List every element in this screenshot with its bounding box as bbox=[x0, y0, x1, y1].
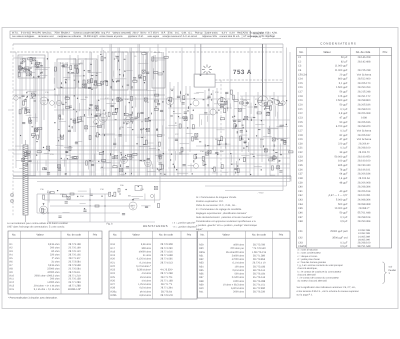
svg-text:C26: C26 bbox=[298, 125, 303, 128]
svg-text:20.000 ohm/V: 20.000 ohm/V bbox=[84, 35, 99, 38]
svg-text:28.771.638: 28.771.638 bbox=[160, 254, 173, 257]
svg-text:C O N D E N S A T E U R S: C O N D E N S A T E U R S bbox=[320, 42, 355, 46]
svg-text:R36: R36 bbox=[199, 273, 204, 276]
svg-text:Imp. F-2: Imp. F-2 bbox=[101, 32, 110, 35]
svg-text:*P.173.325*: *P.173.325* bbox=[160, 269, 173, 272]
svg-text:28.776.5⁄4: 28.776.5⁄4 bbox=[161, 290, 173, 293]
svg-text:R16: R16 bbox=[111, 243, 116, 246]
svg-text:C20: C20 bbox=[298, 104, 303, 107]
svg-text:28.206.4*: 28.206.4* bbox=[359, 142, 370, 145]
svg-text:C62: C62 bbox=[298, 237, 303, 240]
svg-text:R17: R17 bbox=[111, 247, 116, 250]
svg-text:20 μμF: 20 μμF bbox=[339, 73, 347, 76]
svg-text:C36: C36 bbox=[40, 188, 45, 191]
svg-text:Reglages experimentes: „iden: Reglages experimentes: „identification l… bbox=[196, 212, 247, 215]
svg-text:Ordre de succession: O.C.,: Ordre de succession: O.C., O.M., G.L. bbox=[196, 204, 237, 207]
svg-text:C19: C19 bbox=[185, 93, 190, 96]
svg-text:Fig. b: Fig. b bbox=[107, 223, 114, 226]
svg-text:28.098.2*: 28.098.2* bbox=[359, 207, 370, 210]
svg-text:„0,47 — 1 — 0,5”: „0,47 — 1 — 0,5” bbox=[328, 194, 348, 197]
svg-text:R22: R22 bbox=[111, 265, 116, 268]
svg-text:d'accord electrique,: d'accord electrique, bbox=[298, 267, 318, 270]
svg-text:6,1 M.ohm: 6,1 M.ohm bbox=[232, 262, 244, 265]
svg-text:d = petite prise d'acier: d = petite prise d'acier bbox=[298, 258, 321, 261]
svg-text:64 μμF: 64 μμF bbox=[339, 173, 347, 176]
svg-text:C34: C34 bbox=[200, 150, 205, 153]
svg-text:R30: R30 bbox=[220, 150, 225, 153]
svg-text:R30: R30 bbox=[199, 247, 204, 250]
svg-text:R34: R34 bbox=[80, 195, 85, 198]
svg-text:08-1950: 08-1950 bbox=[91, 32, 100, 35]
svg-text:Le raccordement pour contre-ce: Le raccordement pour contre-cellule E19 … bbox=[7, 222, 69, 225]
svg-text:100 μμF: 100 μμF bbox=[338, 160, 348, 163]
svg-text:C34: C34 bbox=[298, 160, 303, 163]
svg-text:28.206.068: 28.206.068 bbox=[358, 112, 371, 115]
svg-text:0,1 μF: 0,1 μF bbox=[340, 129, 348, 132]
svg-text:753A: 753A bbox=[54, 32, 60, 35]
svg-text:B5: B5 bbox=[128, 195, 131, 198]
svg-text:R18: R18 bbox=[100, 123, 105, 126]
svg-text:C35: C35 bbox=[298, 164, 303, 167]
svg-text:28.298.100: 28.298.100 bbox=[358, 147, 371, 150]
svg-text:56.772.830: 56.772.830 bbox=[253, 287, 266, 290]
svg-text:50 μF: 50 μF bbox=[341, 56, 348, 59]
svg-text:R27: R27 bbox=[111, 283, 116, 286]
svg-text:0,6 M.ohm: 0,6 M.ohm bbox=[139, 287, 151, 290]
svg-text:Valeurs mesurees: Valeurs mesurees bbox=[112, 32, 131, 35]
svg-text:28.146.208: 28.146.208 bbox=[358, 56, 371, 59]
svg-text:C42: C42 bbox=[298, 194, 303, 197]
svg-text:C27: C27 bbox=[175, 133, 180, 136]
svg-text:R28b: R28b bbox=[111, 294, 117, 297]
svg-text:du moteur d'accord alternat: du moteur d'accord alternatif. bbox=[298, 280, 328, 283]
svg-text:No.: No. bbox=[113, 234, 117, 237]
svg-text:Prix: Prix bbox=[93, 234, 98, 237]
svg-text:0,6 M.ohm: 0,6 M.ohm bbox=[232, 269, 244, 272]
svg-text:R33: R33 bbox=[199, 262, 204, 265]
svg-text:laque”: laque” bbox=[196, 228, 203, 231]
svg-text:Voir Schema: Voir Schema bbox=[357, 129, 372, 132]
svg-text:28.206.70: 28.206.70 bbox=[358, 151, 370, 154]
svg-text:C17: C17 bbox=[105, 97, 110, 100]
svg-text:C22: C22 bbox=[298, 112, 303, 115]
svg-text:800 μμF: 800 μμF bbox=[338, 78, 348, 81]
svg-text:C30: C30 bbox=[275, 138, 280, 141]
svg-text:de tension sont: de tension sont bbox=[38, 35, 54, 38]
svg-text:R28: R28 bbox=[111, 287, 116, 290]
svg-text:125 μμF: 125 μμF bbox=[338, 95, 348, 98]
svg-text:C33: C33 bbox=[298, 155, 303, 158]
svg-text:2000 ohm: 2000 ohm bbox=[233, 291, 244, 294]
svg-text:R34: R34 bbox=[199, 265, 204, 268]
svg-text:C28: C28 bbox=[298, 134, 303, 137]
svg-text:2400 ohm: 2400 ohm bbox=[233, 280, 244, 283]
svg-text:28.205.170: 28.205.170 bbox=[358, 82, 371, 85]
svg-text:mesurees au voltmetre: mesurees au voltmetre bbox=[58, 35, 82, 38]
svg-text:Prix: Prix bbox=[383, 51, 388, 54]
svg-text:48 μμF: 48 μμF bbox=[339, 181, 347, 184]
svg-text:C20: C20 bbox=[215, 91, 220, 94]
svg-text:C26: C26 bbox=[120, 126, 125, 129]
svg-text:0,5 μF: 0,5 μF bbox=[340, 220, 348, 223]
svg-text:R24: R24 bbox=[111, 272, 116, 275]
svg-text:26.771.168: 26.771.168 bbox=[160, 279, 173, 282]
svg-text:voir: voir bbox=[389, 266, 393, 269]
svg-text:C45: C45 bbox=[298, 207, 303, 210]
svg-text:28.776.308: 28.776.308 bbox=[160, 243, 173, 246]
svg-text:28.290.364: 28.290.364 bbox=[358, 220, 371, 223]
svg-text:0,47 M.ohm ⁄*: 0,47 M.ohm ⁄* bbox=[136, 265, 151, 268]
svg-text:Voir Schema: Voir Schema bbox=[357, 138, 372, 141]
svg-text:et les tensions F.M.A.S., voir: et les tensions F.M.A.S., voir le schema… bbox=[297, 290, 360, 293]
svg-text:50 Hz: 50 Hz bbox=[140, 32, 147, 35]
svg-text:51 ohm: 51 ohm bbox=[143, 254, 151, 257]
svg-text:R15: R15 bbox=[240, 98, 245, 101]
svg-text:C15: C15 bbox=[45, 91, 50, 94]
svg-text:C25: C25 bbox=[298, 121, 303, 124]
svg-text:56 μμF: 56 μμF bbox=[339, 91, 347, 94]
svg-text:No.: No. bbox=[200, 234, 204, 237]
svg-text:C3: C3 bbox=[298, 65, 302, 68]
svg-text:220 V: 220 V bbox=[133, 32, 139, 35]
svg-text:C31: C31 bbox=[298, 147, 303, 150]
svg-text:50.000 μμF: 50.000 μμF bbox=[335, 155, 348, 158]
svg-text:0,1 μF: 0,1 μF bbox=[340, 147, 348, 150]
svg-text:No.: No. bbox=[299, 51, 303, 54]
svg-text:10.000 μμF: 10.000 μμF bbox=[335, 207, 348, 210]
svg-text:tolerance 10%: tolerance 10% bbox=[202, 35, 217, 38]
svg-text:28.205.186: 28.205.186 bbox=[358, 121, 371, 124]
svg-text:C4: C4 bbox=[298, 69, 302, 72]
svg-text:0,3 A: 0,3 A bbox=[230, 32, 236, 35]
svg-text:48.836.149*: 48.836.149* bbox=[68, 288, 81, 291]
svg-text:Voir Schema: Voir Schema bbox=[357, 73, 372, 76]
svg-text:Valeur: Valeur bbox=[132, 234, 139, 237]
svg-text:220 μμF: 220 μμF bbox=[338, 142, 348, 145]
svg-text:k = le contact de courbur: k = le contact de courbure du commutateu… bbox=[298, 270, 342, 273]
svg-text:82 μμF: 82 μμF bbox=[339, 134, 347, 137]
svg-text:R31: R31 bbox=[199, 254, 204, 257]
svg-text:Suite declanchements: „selec: Suite declanchements: „selection et loca… bbox=[196, 216, 253, 219]
svg-text:28.774.260: 28.774.260 bbox=[160, 247, 173, 250]
svg-text:C17: C17 bbox=[298, 91, 303, 94]
svg-text:Valeur: Valeur bbox=[323, 51, 331, 54]
svg-text:28.776.230: 28.776.230 bbox=[253, 291, 266, 294]
svg-text:40 μμF: 40 μμF bbox=[339, 190, 347, 193]
svg-text:R2: R2 bbox=[80, 62, 83, 65]
svg-text:R10: R10 bbox=[125, 98, 130, 101]
svg-text:28.215.248: 28.215.248 bbox=[358, 91, 371, 94]
svg-text:C23: C23 bbox=[298, 116, 303, 119]
svg-text:405 μμF: 405 μμF bbox=[338, 164, 348, 167]
svg-text:No. de code: No. de code bbox=[159, 234, 174, 237]
svg-text:328 ohm: 328 ohm bbox=[142, 247, 152, 250]
svg-text:1,25 M.ohm: 1,25 M.ohm bbox=[138, 283, 151, 286]
svg-text:26.776.4 10: 26.776.4 10 bbox=[253, 262, 267, 265]
svg-text:6,8 M.ohm: 6,8 M.ohm bbox=[139, 294, 151, 297]
svg-text:« position „gauche” et la: « position „gauche” et la « position „co… bbox=[196, 224, 258, 227]
svg-text:R40: R40 bbox=[199, 287, 204, 290]
svg-text:O.C.: O.C. bbox=[175, 32, 180, 35]
svg-text:C22: C22 bbox=[60, 118, 65, 121]
svg-text:C38: C38 bbox=[100, 188, 105, 191]
svg-text:50 μμF: 50 μμF bbox=[339, 104, 347, 107]
svg-text:28.206.068: 28.206.068 bbox=[358, 181, 371, 184]
svg-text:sur la page F 2.: sur la page F 2. bbox=[297, 294, 314, 297]
svg-text:s⁄h M.ohm: s⁄h M.ohm bbox=[140, 290, 151, 293]
svg-text:HT redressee: HT redressee bbox=[243, 35, 258, 38]
svg-text:C29: C29 bbox=[240, 138, 245, 141]
svg-text:R20: R20 bbox=[111, 258, 116, 261]
svg-text:C14: C14 bbox=[298, 78, 303, 81]
svg-text:40000 ohm: 40000 ohm bbox=[139, 250, 151, 253]
svg-text:b = sans condensateur: b = sans condensateur bbox=[298, 252, 322, 255]
svg-text:C16: C16 bbox=[298, 86, 303, 89]
svg-text:C48: C48 bbox=[298, 220, 303, 223]
svg-text:28.771.**4: 28.771.**4 bbox=[161, 283, 173, 286]
svg-text:28.190.160: 28.190.160 bbox=[358, 160, 371, 163]
svg-text:C36: C36 bbox=[298, 168, 303, 171]
svg-text:2×500 ohm: 2×500 ohm bbox=[232, 276, 244, 279]
svg-text:C39: C39 bbox=[140, 188, 145, 191]
svg-text:24.098.364: 24.098.364 bbox=[358, 199, 371, 202]
svg-text:28.196.191: 28.196.191 bbox=[358, 168, 371, 171]
svg-text:O.M.: O.M. bbox=[182, 32, 187, 35]
svg-text:C43: C43 bbox=[298, 199, 303, 202]
svg-text:C2: C2 bbox=[298, 60, 302, 63]
svg-text:R25: R25 bbox=[111, 276, 116, 279]
svg-text:C18: C18 bbox=[145, 101, 150, 104]
svg-text:R26: R26 bbox=[111, 279, 116, 282]
svg-text:c = disque a l'ecran: c = disque a l'ecran bbox=[298, 255, 319, 258]
svg-text:28.771.*04: 28.771.*04 bbox=[161, 276, 173, 279]
svg-text:28.298.394: 28.298.394 bbox=[358, 186, 371, 189]
svg-text:28.291.172: 28.291.172 bbox=[358, 95, 371, 98]
svg-text:l = le contact de contact: l = le contact de contact du commutateur bbox=[298, 277, 340, 280]
svg-text:220 ohm par: 220 ohm par bbox=[230, 247, 244, 250]
svg-text:28.776.288: 28.776.288 bbox=[253, 280, 266, 283]
svg-text:E.M.: E.M. bbox=[168, 32, 173, 35]
svg-text:28.774.513: 28.774.513 bbox=[160, 261, 173, 264]
svg-text:* Personnalisation à chaufon a: * Personnalisation à chaufon avec detona… bbox=[8, 297, 58, 300]
svg-text:C29: C29 bbox=[298, 138, 303, 141]
svg-text:28.773.186: 28.773.186 bbox=[253, 265, 266, 268]
svg-text:28.298.470: 28.298.470 bbox=[358, 125, 371, 128]
svg-text:S1: S1 bbox=[134, 55, 137, 58]
svg-text:28.290.299: 28.290.299 bbox=[358, 86, 371, 89]
svg-text:500 ohm: 500 ohm bbox=[235, 273, 245, 276]
svg-text:C21: C21 bbox=[298, 108, 303, 111]
svg-text:78.771.394: 78.771.394 bbox=[160, 287, 173, 290]
svg-text:courant total 34 mA: courant total 34 mA bbox=[219, 35, 239, 38]
svg-text:28.771.380: 28.771.380 bbox=[253, 254, 266, 257]
svg-text:R36: R36 bbox=[120, 184, 125, 187]
svg-text:28.298.860: 28.298.860 bbox=[358, 99, 371, 102]
svg-text:(1.000 μμF: (1.000 μμF bbox=[335, 65, 348, 68]
svg-text:5,1 μμF: 5,1 μμF bbox=[339, 82, 348, 85]
svg-text:5-CV-218: 5-CV-218 bbox=[21, 32, 31, 35]
svg-text:28.142.498: 28.142.498 bbox=[358, 60, 371, 63]
svg-text:28.298.100: 28.298.100 bbox=[358, 108, 371, 111]
svg-text:4000 ohm: 4000 ohm bbox=[233, 244, 244, 247]
svg-text:9,1 M.ohm + 0,1 M.ohm: 9,1 M.ohm + 0,1 M.ohm bbox=[34, 288, 60, 291]
svg-text:Valeur: Valeur bbox=[36, 234, 43, 237]
svg-text:Feuille 2: Feuille 2 bbox=[61, 32, 70, 35]
svg-text:28.774.565: 28.774.565 bbox=[160, 258, 173, 261]
svg-text:M.T.U.: M.T.U. bbox=[12, 32, 19, 35]
svg-text:6,8 μμF: 6,8 μμF bbox=[339, 112, 348, 115]
svg-text:AZ41: AZ41 bbox=[272, 32, 278, 35]
svg-text:78 μμF: 78 μμF bbox=[339, 168, 347, 171]
svg-text:R37: R37 bbox=[199, 276, 204, 279]
svg-text:C31: C31 bbox=[50, 153, 55, 156]
svg-text:28.512.660: 28.512.660 bbox=[358, 78, 371, 81]
svg-text:f, g, h et i sont les con: f, g, h et i sont les contacts du volet … bbox=[298, 264, 344, 267]
svg-text:C47: C47 bbox=[298, 216, 303, 219]
svg-text:4 M.ohm: 4 M.ohm bbox=[142, 279, 151, 282]
svg-text:47 μμF: 47 μμF bbox=[339, 138, 347, 141]
svg-text:8,28 M.ohm*: 8,28 M.ohm* bbox=[137, 269, 151, 272]
svg-text:H.T. 253 V: H.T. 253 V bbox=[148, 32, 159, 35]
svg-text:9,1 M.ohm: 9,1 M.ohm bbox=[139, 261, 151, 264]
svg-text:Consideration est appreciee: Consideration est appreciee seulement qu… bbox=[196, 220, 256, 223]
svg-text:C16: C16 bbox=[65, 95, 70, 98]
svg-text:Red. AZ41: Red. AZ41 bbox=[237, 32, 249, 35]
svg-text:47000 ohm: 47000 ohm bbox=[232, 258, 244, 261]
svg-text:Cadre antist.: Cadre antist. bbox=[205, 32, 218, 35]
svg-text:R18: R18 bbox=[111, 250, 116, 253]
svg-text:K = Commutateur de reglage: K = Commutateur de reglage de sensibilit… bbox=[196, 208, 242, 211]
svg-text:C64/65: C64/65 bbox=[298, 245, 307, 248]
svg-text:28.773.780: 28.773.780 bbox=[253, 244, 266, 247]
svg-text:0,1 μF: 0,1 μF bbox=[340, 216, 348, 219]
svg-text:3,56 ohm: 3,56 ohm bbox=[141, 243, 151, 246]
svg-text:R21: R21 bbox=[111, 261, 116, 264]
svg-text:EAF41: EAF41 bbox=[257, 32, 265, 35]
svg-text:28.771.616: 28.771.616 bbox=[160, 250, 173, 253]
svg-text:a = sans d'induction: a = sans d'induction bbox=[298, 249, 319, 252]
svg-text:28.205.186: 28.205.186 bbox=[358, 104, 371, 107]
svg-text:C15: C15 bbox=[298, 82, 303, 85]
svg-text:No. de code: No. de code bbox=[67, 234, 82, 237]
svg-text:G.L.: G.L. bbox=[188, 32, 193, 35]
svg-text:C25: C25 bbox=[80, 120, 85, 123]
svg-text:10 ohm = 59,3 ohm: 10 ohm = 59,3 ohm bbox=[223, 283, 244, 286]
svg-text:1.500 μμF: 1.500 μμF bbox=[336, 86, 348, 89]
svg-text:R35: R35 bbox=[199, 269, 204, 272]
svg-text:R9: R9 bbox=[85, 96, 88, 99]
svg-text:C1: C1 bbox=[298, 56, 302, 59]
svg-text:R41: R41 bbox=[199, 291, 204, 294]
svg-text:753 A: 753 A bbox=[233, 69, 252, 76]
svg-text:C46: C46 bbox=[298, 212, 303, 215]
svg-text:Prix: Prix bbox=[187, 234, 192, 237]
svg-text:4.700 μμF: 4.700 μμF bbox=[336, 125, 348, 128]
svg-text:1,4 μμF: 1,4 μμF bbox=[339, 177, 348, 180]
svg-text:55.776.516: 55.776.516 bbox=[253, 276, 266, 279]
svg-text:26.774.151: 26.774.151 bbox=[253, 283, 266, 286]
svg-text:C40: C40 bbox=[298, 186, 303, 189]
svg-text:C19: C19 bbox=[298, 99, 303, 102]
svg-text:28.205.182: 28.205.182 bbox=[358, 134, 371, 137]
svg-text:e = fixe des bornes grand: e = fixe des bornes grandes bbox=[298, 261, 327, 264]
svg-text:100 ohm: 100 ohm bbox=[235, 265, 245, 268]
svg-text:28.190.650: 28.190.650 bbox=[358, 155, 371, 158]
svg-text:R38: R38 bbox=[199, 280, 204, 283]
svg-text:1698: 1698 bbox=[361, 116, 367, 119]
svg-text:C37: C37 bbox=[298, 173, 303, 176]
svg-text:3500 μμF ord: 3500 μμF ord bbox=[332, 237, 348, 240]
svg-text:5.000 μμF: 5.000 μμF bbox=[336, 199, 348, 202]
svg-text:28.771.268: 28.771.268 bbox=[160, 272, 173, 275]
svg-text:4 M.ohm: 4 M.ohm bbox=[142, 272, 151, 275]
svg-text:*75.776.550: *75.776.550 bbox=[252, 247, 266, 250]
svg-text:No.: No. bbox=[12, 234, 16, 237]
svg-text:R32: R32 bbox=[199, 258, 204, 261]
svg-text:28.215.238: 28.215.238 bbox=[358, 69, 371, 72]
svg-text:· m = „position diapason”: · m = „position diapason” bbox=[172, 225, 198, 228]
svg-text:« n = „position gauche”: « n = „position gauche” bbox=[172, 222, 196, 225]
svg-text:500 μμF: 500 μμF bbox=[338, 203, 348, 206]
svg-text:C38: C38 bbox=[298, 177, 303, 180]
svg-text:25000 μμF part: 25000 μμF part bbox=[330, 230, 348, 233]
svg-text:C61: C61 bbox=[298, 230, 303, 233]
svg-text:C27: C27 bbox=[298, 129, 303, 132]
svg-text:Feuillet: Feuillet bbox=[389, 269, 397, 272]
svg-text:⁄ 753 ⁄: ⁄ 753 ⁄ bbox=[257, 192, 264, 195]
svg-text:2.500 μμF: 2.500 μμF bbox=[336, 99, 348, 102]
svg-text:0,1 μF: 0,1 μF bbox=[340, 108, 348, 111]
svg-text:1⁄5 M.ohm: 1⁄5 M.ohm bbox=[140, 276, 151, 279]
svg-text:0,5 μF: 0,5 μF bbox=[340, 245, 348, 248]
svg-text:R30a: R30a bbox=[199, 251, 205, 254]
svg-text:C44: C44 bbox=[298, 203, 303, 206]
svg-text:28.776.184: 28.776.184 bbox=[253, 273, 266, 276]
svg-text:RESISTANCES: RESISTANCES bbox=[143, 224, 168, 228]
svg-text:11.000 μμF: 11.000 μμF bbox=[335, 69, 348, 72]
svg-text:R19: R19 bbox=[111, 254, 116, 257]
svg-text:Prix: Prix bbox=[279, 234, 284, 237]
svg-text:G = Commutateur de longueu: G = Commutateur de longueur d'onde. bbox=[196, 196, 237, 199]
svg-text:28.740.240: 28.740.240 bbox=[358, 164, 371, 167]
svg-text:C39: C39 bbox=[298, 181, 303, 184]
svg-text:50 μμF: 50 μμF bbox=[339, 121, 347, 124]
svg-text:EL41: EL41 bbox=[265, 32, 271, 35]
svg-text:C32: C32 bbox=[298, 151, 303, 154]
svg-text:No. de code: No. de code bbox=[252, 234, 267, 237]
svg-text:sans signal: sans signal bbox=[147, 35, 159, 38]
svg-text:58.776.514: 58.776.514 bbox=[253, 269, 266, 272]
svg-text:entre chassis et points: entre chassis et points bbox=[100, 35, 124, 38]
svg-text:Position exploratrice: O.C.: Position exploratrice: O.C. bbox=[196, 200, 224, 203]
svg-text:1.08.776.215: 1.08.776.215 bbox=[252, 251, 267, 254]
svg-text:C41: C41 bbox=[298, 190, 303, 193]
svg-text:B.F.: B.F. bbox=[162, 32, 166, 35]
svg-text:PHILIPS: PHILIPS bbox=[32, 32, 41, 35]
svg-text:3: 3 bbox=[389, 272, 391, 275]
svg-text:No. de code: No. de code bbox=[356, 51, 371, 54]
svg-text:C18: C18 bbox=[298, 95, 303, 98]
svg-text:R15: R15 bbox=[10, 288, 15, 291]
svg-text:58.791.648: 58.791.648 bbox=[358, 245, 371, 248]
svg-text:24000 ohm: 24000 ohm bbox=[232, 254, 244, 257]
svg-text:28.106.64: 28.106.64 bbox=[358, 177, 370, 180]
svg-text:1967 dans l'echange de commuta: 1967 dans l'echange de commutation. S a … bbox=[7, 226, 65, 229]
svg-text:Les valeurs indiquees: Les valeurs indiquees bbox=[12, 35, 35, 38]
svg-text:28.206.194: 28.206.194 bbox=[358, 190, 371, 193]
svg-text:6,3 V: 6,3 V bbox=[222, 32, 228, 35]
svg-text:positions: O.M.: positions: O.M. bbox=[128, 35, 144, 38]
